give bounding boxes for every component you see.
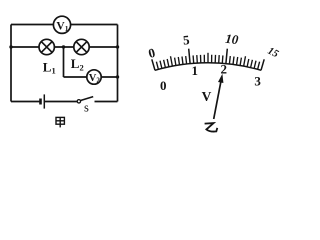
wire: left vertical of circuit loop [10,25,12,102]
wire: V2 branch horizontal to V2 [64,76,87,78]
wire: top horizontal left of V1 [11,24,53,26]
node: junction dot at left vertical and lamp row [9,45,12,48]
wire: V2 branch vertical drop [63,47,65,77]
lamp L1 circle [39,39,54,54]
svg-text:0: 0 [147,45,157,61]
wire: between L1 and L2 [54,46,74,48]
wire: switch to bottom right corner [95,101,118,103]
switch S pivot circle [77,100,80,103]
svg-text:1: 1 [192,63,199,78]
wire: V2 to right vertical [101,76,117,78]
lamp L1 cross [41,42,52,53]
svg-text:0: 0 [160,78,167,93]
battery positive long thin plate [43,94,45,108]
switch S lever arm [81,97,94,101]
node: junction dot at right vertical and lamp row [116,45,119,48]
node: junction dot between lamps for V2 branch [62,45,65,48]
svg-text:V1: V1 [56,20,68,33]
svg-text:15: 15 [266,46,280,61]
lamp L2 cross [76,42,87,53]
svg-text:s: s [84,101,89,115]
svg-text:2: 2 [220,61,227,76]
svg-text:5: 5 [182,32,190,48]
meter needle arrowhead [218,74,223,83]
wire: top horizontal right of V1 [71,24,118,26]
voltmeter V1 circle [53,16,70,33]
meter scale tick marks [152,49,264,71]
meter scale bottom arc [155,63,261,71]
wire: from L2 to right vertical [89,46,118,48]
node: junction dot at right vertical and V2 row [116,75,119,78]
svg-text:3: 3 [254,73,261,88]
label JIA (Chinese: first) drawn strokes [56,117,64,127]
wire: lamp row from left vertical to L1 [11,46,39,48]
lamp L2 circle [74,39,89,54]
wire: right vertical of circuit loop [117,25,119,102]
voltmeter V2 circle [87,70,101,84]
svg-text:V2: V2 [89,73,101,84]
meter needle shaft [214,81,221,119]
svg-text:L2: L2 [71,56,84,72]
wire: battery to switch [44,101,77,103]
svg-text:L1: L1 [43,59,56,75]
battery negative short thick plate [39,99,42,105]
svg-text:V: V [202,89,212,104]
label YI (Chinese: second) drawn strokes [205,123,218,131]
svg-text:10: 10 [225,31,240,47]
wire: bottom left from loop corner to battery [11,101,40,103]
